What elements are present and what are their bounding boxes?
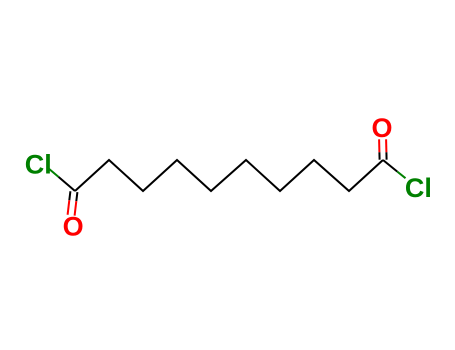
- svg-text:Cl: Cl: [405, 173, 432, 203]
- svg-text:Cl: Cl: [25, 150, 52, 180]
- svg-text:O: O: [63, 211, 84, 241]
- svg-text:O: O: [372, 113, 393, 143]
